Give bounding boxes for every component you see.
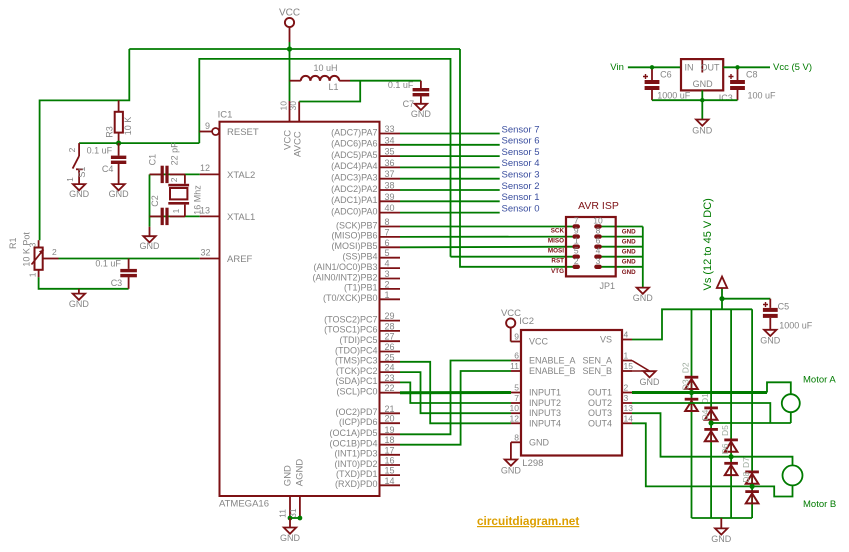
svg-text:(TCK)PC2: (TCK)PC2	[336, 366, 378, 376]
wires sensor nets PA7-PA0	[400, 134, 500, 213]
svg-text:10 K: 10 K	[123, 117, 133, 136]
svg-text:GND: GND	[282, 465, 293, 486]
ground under diode network	[711, 518, 732, 544]
wire VCC to L1	[289, 49, 291, 101]
wire OUT4 to Motor B bottom	[632, 423, 793, 496]
svg-text:(OC2)PD7: (OC2)PD7	[335, 407, 377, 417]
svg-text:SEN_A: SEN_A	[582, 356, 612, 366]
svg-text:VS: VS	[600, 335, 612, 345]
svg-text:(TMS)PC3: (TMS)PC3	[335, 356, 378, 366]
svg-text:5: 5	[574, 246, 579, 256]
svg-text:Sensor 1: Sensor 1	[502, 192, 540, 203]
svg-text:Sensor 3: Sensor 3	[502, 170, 540, 181]
svg-text:GND: GND	[622, 249, 636, 256]
node labels Sensor 7..Sensor 0	[502, 124, 540, 214]
svg-text:30: 30	[288, 101, 298, 111]
svg-text:10 K Pot: 10 K Pot	[22, 232, 32, 267]
svg-text:IN: IN	[685, 63, 694, 73]
svg-text:(SCK)PB7: (SCK)PB7	[336, 220, 378, 230]
capacitor C7 0.1 uF	[388, 80, 429, 109]
svg-text:0.1 uF: 0.1 uF	[388, 80, 414, 90]
svg-text:D6: D6	[720, 443, 730, 454]
wire PC2 to INPUT3	[400, 372, 511, 413]
svg-text:2: 2	[624, 383, 629, 393]
svg-text:4: 4	[596, 246, 601, 256]
svg-text:D4: D4	[700, 409, 710, 420]
svg-text:(MOSI)PB5: (MOSI)PB5	[331, 241, 377, 251]
svg-text:D5: D5	[720, 425, 730, 436]
pin 9 lead and bubble (RESET)	[199, 128, 219, 135]
svg-text:L1: L1	[329, 82, 339, 92]
IC1 PB port pins with numbers	[312, 217, 400, 303]
svg-text:18: 18	[385, 435, 395, 445]
junction C8 top	[735, 65, 739, 69]
svg-text:VCC: VCC	[501, 308, 521, 319]
svg-text:GND: GND	[411, 109, 432, 119]
junction OUT1/D2-D3	[689, 390, 694, 395]
svg-text:10: 10	[279, 101, 289, 111]
svg-text:7: 7	[514, 393, 519, 403]
svg-text:XTAL1: XTAL1	[227, 212, 255, 223]
ground under IC2	[501, 460, 522, 476]
wire pot bottom to C3 bottom	[39, 277, 129, 289]
svg-text:circuitdiagram.net: circuitdiagram.net	[477, 514, 579, 528]
wire RESET net top	[199, 59, 450, 257]
diode D5	[720, 425, 738, 452]
wire crystal left vertical	[149, 174, 151, 226]
svg-text:Sensor 5: Sensor 5	[502, 147, 540, 158]
wire diode rail 3	[730, 309, 732, 518]
IC1 PC port pins with numbers	[324, 311, 400, 396]
svg-text:1: 1	[574, 236, 579, 246]
svg-text:(ADC3)PA3: (ADC3)PA3	[331, 173, 377, 183]
wire OUT2 to Motor A bottom	[632, 403, 791, 423]
diode D4	[700, 409, 718, 441]
svg-text:(ADC1)PA1: (ADC1)PA1	[331, 195, 377, 205]
svg-text:2: 2	[67, 147, 77, 152]
svg-text:20: 20	[385, 414, 395, 424]
svg-text:GND: GND	[69, 299, 90, 309]
svg-text:GND: GND	[69, 189, 90, 199]
wire PD4 to ENABLE_B	[400, 371, 511, 445]
svg-text:Sensor 6: Sensor 6	[502, 136, 540, 147]
wire PC3 to INPUT4	[400, 362, 511, 424]
svg-text:VCC: VCC	[279, 8, 300, 19]
junction VCC stub	[287, 46, 292, 51]
svg-text:D8: D8	[741, 472, 751, 483]
svg-text:16 Mhz: 16 Mhz	[193, 185, 203, 215]
wire bottom gnd bus	[692, 517, 753, 519]
watermark circuitdiagram.net	[477, 514, 579, 528]
crystal Q1 16 Mhz	[168, 174, 202, 216]
capacitor C5 1000 uF	[763, 299, 813, 331]
wire ISP gnd vertical	[642, 227, 644, 288]
svg-text:GND: GND	[622, 229, 636, 236]
svg-text:C3: C3	[111, 278, 123, 288]
wire OUT1 to Motor A top	[632, 382, 791, 394]
svg-text:S1: S1	[77, 167, 87, 178]
VCC power symbol (top)	[279, 8, 300, 50]
diode D2	[680, 362, 698, 389]
svg-text:IC2: IC2	[519, 316, 534, 327]
svg-text:0.1 uF: 0.1 uF	[87, 146, 113, 156]
connector JP1 AVR ISP header	[566, 200, 619, 291]
capacitor C6 1000 uF	[643, 67, 691, 100]
svg-text:(OC1B)PD4: (OC1B)PD4	[329, 439, 377, 449]
svg-text:3: 3	[624, 393, 629, 403]
potentiometer R1 10 K Pot	[8, 232, 58, 278]
svg-text:17: 17	[385, 445, 395, 455]
wire IC2 gnd	[510, 442, 512, 459]
svg-text:OUT1: OUT1	[588, 388, 612, 398]
svg-text:GND: GND	[501, 466, 522, 476]
diode D3	[680, 379, 698, 411]
svg-text:1: 1	[65, 177, 75, 182]
svg-text:Sensor 0: Sensor 0	[502, 203, 540, 214]
wire diode rail 2	[710, 309, 712, 518]
svg-text:10: 10	[593, 216, 603, 226]
svg-text:(RXD)PD0: (RXD)PD0	[335, 479, 378, 489]
svg-text:(TOSC1)PC6: (TOSC1)PC6	[324, 325, 377, 335]
wire VS to top bus	[632, 309, 752, 339]
svg-text:(ADC0)PA0: (ADC0)PA0	[331, 206, 377, 216]
capacitor C2 22 pF	[150, 195, 185, 225]
capacitor C8 100 uF	[729, 67, 777, 100]
svg-text:C4: C4	[102, 164, 114, 174]
svg-text:INPUT2: INPUT2	[529, 398, 561, 408]
svg-text:AGND: AGND	[294, 459, 305, 487]
junction OUT4/D7-D8	[750, 484, 755, 489]
svg-text:(AIN1/OC0)PB3: (AIN1/OC0)PB3	[313, 262, 377, 272]
svg-text:(ADC7)PA7: (ADC7)PA7	[331, 127, 377, 137]
svg-text:(ADC5)PA5: (ADC5)PA5	[331, 150, 377, 160]
svg-text:8: 8	[514, 432, 519, 442]
svg-text:ENABLE_A: ENABLE_A	[529, 356, 576, 366]
svg-text:100 uF: 100 uF	[748, 90, 777, 100]
svg-text:XTAL2: XTAL2	[227, 170, 255, 181]
svg-text:36: 36	[385, 158, 395, 168]
svg-text:11: 11	[278, 509, 288, 518]
svg-text:GND: GND	[140, 241, 161, 251]
junction OUT3/D5-D6	[729, 454, 734, 459]
wire diode rail 1	[691, 309, 693, 518]
wires ISP ground nets	[598, 227, 643, 276]
svg-text:24: 24	[385, 363, 395, 373]
switch S1	[65, 143, 87, 184]
wire VCC horizontal bus y=49	[129, 48, 460, 50]
svg-text:4: 4	[624, 330, 629, 340]
svg-text:Motor B: Motor B	[803, 499, 836, 510]
svg-text:9: 9	[574, 226, 579, 236]
junction R3 bottom	[116, 141, 121, 146]
svg-text:9: 9	[514, 332, 519, 342]
svg-text:13: 13	[624, 403, 634, 413]
wire VTG drop	[460, 49, 574, 267]
svg-text:GND: GND	[640, 377, 661, 387]
svg-text:(TDI)PC5: (TDI)PC5	[340, 335, 378, 345]
wire Vcc out net	[723, 62, 812, 73]
wire OUT3 to Motor B top	[632, 413, 793, 465]
wire Vs to C5	[722, 298, 770, 300]
svg-text:16: 16	[385, 456, 395, 466]
svg-text:Sensor 4: Sensor 4	[502, 158, 540, 169]
svg-text:SCK: SCK	[551, 228, 565, 235]
svg-text:10 uH: 10 uH	[313, 63, 337, 73]
wire regulator gnd stem	[701, 90, 703, 119]
svg-text:(SDA)PC1: (SDA)PC1	[335, 376, 377, 386]
svg-text:3: 3	[385, 269, 390, 279]
wire PC1 to INPUT2	[400, 382, 511, 403]
wire regulator ground rail	[652, 99, 738, 101]
svg-text:3: 3	[596, 256, 601, 266]
svg-text:27: 27	[385, 332, 395, 342]
IC1 PA port pins with numbers	[331, 124, 400, 216]
svg-text:1000 uF: 1000 uF	[779, 320, 813, 330]
svg-text:(INT0)PD2: (INT0)PD2	[334, 459, 377, 469]
svg-text:INPUT1: INPUT1	[529, 388, 561, 398]
ground under S1	[69, 184, 90, 199]
svg-text:25: 25	[385, 352, 395, 362]
capacitor C4 0.1 uF	[87, 143, 127, 184]
svg-text:1: 1	[385, 290, 390, 300]
svg-text:2: 2	[169, 177, 179, 182]
svg-text:8: 8	[596, 226, 601, 236]
svg-text:5: 5	[385, 248, 390, 258]
motor A	[782, 374, 837, 412]
svg-text:GND: GND	[622, 269, 636, 276]
svg-text:6: 6	[596, 236, 601, 246]
wire PD5 to ENABLE_A	[400, 361, 511, 435]
wire Vin net	[610, 62, 681, 73]
svg-text:38: 38	[385, 181, 395, 191]
svg-text:14: 14	[624, 413, 634, 423]
svg-text:1000 uF: 1000 uF	[657, 90, 691, 100]
IC1 PD port pins with numbers	[329, 404, 400, 489]
svg-text:L298: L298	[522, 458, 543, 469]
svg-text:4: 4	[385, 259, 390, 269]
svg-text:15: 15	[624, 361, 634, 371]
VCC power symbol (IC2)	[501, 308, 521, 342]
svg-text:28: 28	[385, 321, 395, 331]
svg-text:5: 5	[514, 383, 519, 393]
svg-text:12: 12	[510, 413, 520, 423]
capacitor C3 0.1 uF	[95, 259, 137, 289]
svg-text:GND: GND	[622, 259, 636, 266]
wire SCK net	[400, 226, 574, 228]
svg-text:SEN_B: SEN_B	[582, 366, 612, 376]
svg-text:OUT2: OUT2	[588, 398, 612, 408]
ground under crystal	[140, 227, 161, 251]
svg-text:D3: D3	[680, 379, 690, 390]
svg-text:INPUT3: INPUT3	[529, 408, 561, 418]
junction pin 11	[288, 516, 293, 521]
svg-text:IC1: IC1	[218, 110, 233, 121]
node Vs supply arrow	[702, 198, 727, 309]
svg-text:0.1 uF: 0.1 uF	[95, 259, 121, 269]
svg-text:37: 37	[385, 169, 395, 179]
inductor L1 10 uH	[290, 63, 351, 92]
svg-text:RESET: RESET	[227, 127, 259, 138]
svg-text:GND: GND	[760, 335, 781, 345]
svg-text:(ADC6)PA6: (ADC6)PA6	[331, 139, 377, 149]
svg-text:1: 1	[171, 208, 181, 213]
svg-text:1: 1	[624, 351, 629, 361]
svg-text:OUT4: OUT4	[588, 418, 612, 428]
voltage regulator IC3	[681, 59, 733, 103]
svg-text:34: 34	[385, 135, 395, 145]
svg-text:6: 6	[385, 238, 390, 248]
svg-text:R3: R3	[104, 126, 114, 138]
svg-text:40: 40	[385, 203, 395, 213]
svg-text:GND: GND	[280, 533, 301, 543]
svg-text:(SS)PB4: (SS)PB4	[342, 252, 377, 262]
svg-text:19: 19	[385, 425, 395, 435]
svg-text:1: 1	[27, 272, 37, 277]
svg-text:C2: C2	[150, 195, 160, 207]
svg-text:11: 11	[510, 361, 519, 371]
svg-text:C1: C1	[147, 154, 157, 166]
wire AREF net	[59, 258, 200, 260]
wire XTAL2 net	[150, 173, 200, 175]
svg-text:IC3: IC3	[719, 93, 733, 103]
svg-text:AVR ISP: AVR ISP	[578, 200, 619, 212]
svg-text:Motor A: Motor A	[803, 374, 836, 385]
svg-text:C5: C5	[778, 302, 790, 312]
wire AVCC branch	[299, 81, 360, 102]
ground for sense pins	[640, 371, 661, 387]
svg-text:33: 33	[385, 124, 395, 134]
svg-text:ENABLE_B: ENABLE_B	[529, 366, 576, 376]
svg-text:AVCC: AVCC	[292, 131, 303, 157]
svg-text:Vs (12 to 45 V DC): Vs (12 to 45 V DC)	[702, 198, 714, 290]
op-amp U1 main IC ATMEGA16 (IC1) body	[205, 101, 380, 518]
svg-text:ATMEGA16: ATMEGA16	[219, 498, 269, 509]
wire PC0 to INPUT1	[400, 391, 511, 394]
svg-text:Sensor 2: Sensor 2	[502, 181, 540, 192]
svg-text:32: 32	[200, 248, 210, 258]
svg-text:AREF: AREF	[227, 254, 253, 265]
motor driver IC2 L298 body	[510, 316, 634, 469]
svg-text:(ICP)PD6: (ICP)PD6	[339, 417, 378, 427]
resistor R3	[104, 100, 133, 143]
svg-text:12: 12	[200, 163, 210, 173]
svg-text:10: 10	[510, 403, 520, 413]
svg-text:INPUT4: INPUT4	[529, 418, 561, 428]
svg-text:D7: D7	[741, 457, 751, 468]
svg-text:GND: GND	[693, 79, 714, 89]
junction OUT2/D1-D4	[709, 420, 714, 425]
pin 13 lead	[200, 206, 220, 217]
svg-text:26: 26	[385, 342, 395, 352]
wire MISO net	[400, 236, 574, 238]
svg-text:(TOSC2)PC7: (TOSC2)PC7	[324, 314, 377, 324]
svg-text:35: 35	[385, 147, 395, 157]
svg-text:VCC: VCC	[529, 337, 549, 347]
svg-text:2: 2	[385, 279, 390, 289]
svg-text:22 pF: 22 pF	[170, 142, 180, 166]
wire SEN_A/SEN_B to gnd	[632, 361, 650, 372]
diode D1	[700, 393, 718, 420]
svg-text:MOSI: MOSI	[548, 248, 564, 255]
junction regulator gnd	[700, 98, 704, 102]
svg-text:C7: C7	[403, 99, 415, 109]
svg-text:JP1: JP1	[599, 281, 615, 291]
diode D7	[741, 457, 759, 484]
svg-text:14: 14	[385, 476, 395, 486]
svg-text:22: 22	[385, 383, 395, 393]
svg-text:C6: C6	[660, 70, 672, 80]
svg-text:(OC1A)PD5: (OC1A)PD5	[329, 428, 377, 438]
svg-text:GND: GND	[529, 437, 550, 447]
ISP left pin labels	[548, 228, 565, 275]
svg-text:RST: RST	[551, 258, 564, 265]
svg-text:C8: C8	[746, 70, 758, 80]
svg-text:6: 6	[514, 351, 519, 361]
pin 32 lead	[200, 248, 220, 259]
wire diode rail 4	[751, 309, 753, 518]
wire XTAL1 net	[150, 215, 200, 217]
svg-text:9: 9	[205, 121, 210, 131]
diode D6	[720, 443, 738, 475]
motor B	[783, 465, 837, 510]
svg-text:GND: GND	[692, 126, 713, 136]
svg-text:(MISO)PB6: (MISO)PB6	[331, 231, 377, 241]
svg-text:GND: GND	[633, 293, 654, 303]
svg-text:MISO: MISO	[548, 238, 564, 245]
wire RST to ISP	[451, 256, 575, 258]
svg-text:R1: R1	[8, 237, 18, 249]
svg-text:(TXD)PD1: (TXD)PD1	[336, 469, 378, 479]
svg-text:GND: GND	[109, 189, 130, 199]
ground under regulator	[692, 120, 713, 136]
wire VCC left drop to y=100 and left run	[40, 49, 130, 240]
ground under AREF filter	[69, 289, 90, 309]
svg-text:23: 23	[385, 373, 395, 383]
svg-text:(T0/XCK)PB0: (T0/XCK)PB0	[323, 293, 378, 303]
svg-text:(T1)PB1: (T1)PB1	[344, 283, 378, 293]
svg-text:Sensor 7: Sensor 7	[502, 124, 540, 135]
pin 12 lead	[200, 163, 220, 174]
wire MOSI net	[400, 246, 574, 249]
diode D8	[741, 472, 759, 504]
junction C6 top	[650, 65, 654, 69]
ground under ISP	[633, 288, 654, 303]
svg-text:15: 15	[385, 466, 395, 476]
svg-text:29: 29	[385, 311, 395, 321]
ground under C5	[760, 330, 781, 346]
svg-text:(TDO)PC4: (TDO)PC4	[335, 345, 378, 355]
svg-text:(SCL)PC0: (SCL)PC0	[336, 387, 377, 397]
svg-text:GND: GND	[711, 534, 732, 544]
svg-text:2: 2	[574, 256, 579, 266]
svg-text:(AIN0/INT2)PB2: (AIN0/INT2)PB2	[312, 272, 377, 282]
wire node R3/C4/S1 to RESET	[79, 142, 199, 144]
svg-text:(ADC4)PA4: (ADC4)PA4	[331, 161, 377, 171]
wire chip bottom gnd join	[290, 517, 300, 519]
ground under IC1	[280, 518, 301, 543]
svg-text:OUT: OUT	[701, 63, 721, 73]
junction pin 31	[298, 516, 303, 521]
svg-text:(ADC2)PA2: (ADC2)PA2	[331, 184, 377, 194]
svg-text:21: 21	[385, 404, 395, 414]
svg-text:39: 39	[385, 192, 395, 202]
svg-text:7: 7	[574, 216, 579, 226]
svg-text:VTG: VTG	[551, 268, 564, 275]
ground under C7	[411, 104, 432, 119]
svg-text:GND: GND	[622, 239, 636, 246]
ground under C4	[109, 184, 130, 199]
capacitor C1 22 pF	[147, 142, 185, 183]
